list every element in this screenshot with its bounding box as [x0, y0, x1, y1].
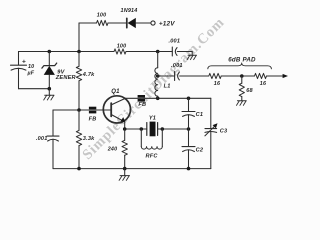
svg-text:C2: C2	[196, 147, 204, 153]
svg-text:3.3k: 3.3k	[83, 136, 95, 142]
svg-text:4.7k: 4.7k	[82, 72, 95, 78]
svg-text:µF: µF	[26, 71, 34, 77]
svg-text:ZENER: ZENER	[55, 75, 76, 81]
svg-text:.001: .001	[36, 136, 48, 142]
svg-text:.001: .001	[171, 63, 183, 69]
svg-text:FB: FB	[138, 102, 146, 108]
svg-text:+: +	[22, 58, 26, 65]
svg-text:10: 10	[28, 64, 34, 70]
svg-text:Y1: Y1	[149, 116, 156, 122]
svg-text:C1: C1	[196, 112, 204, 118]
svg-text:1N914: 1N914	[121, 8, 138, 14]
svg-text:FB: FB	[89, 117, 97, 123]
svg-text:RFC: RFC	[146, 153, 159, 159]
svg-text:L1: L1	[164, 84, 171, 90]
svg-text:240: 240	[107, 146, 118, 152]
svg-text:100: 100	[117, 43, 127, 49]
svg-text:+12V: +12V	[159, 21, 175, 28]
svg-text:Q1: Q1	[111, 89, 120, 95]
svg-text:16: 16	[260, 81, 267, 87]
svg-text:68: 68	[246, 88, 253, 94]
svg-text:100: 100	[97, 13, 107, 19]
svg-text:C3: C3	[220, 129, 228, 135]
svg-text:.001: .001	[168, 39, 180, 45]
svg-text:16: 16	[214, 81, 221, 87]
svg-text:6dB PAD: 6dB PAD	[228, 56, 256, 63]
